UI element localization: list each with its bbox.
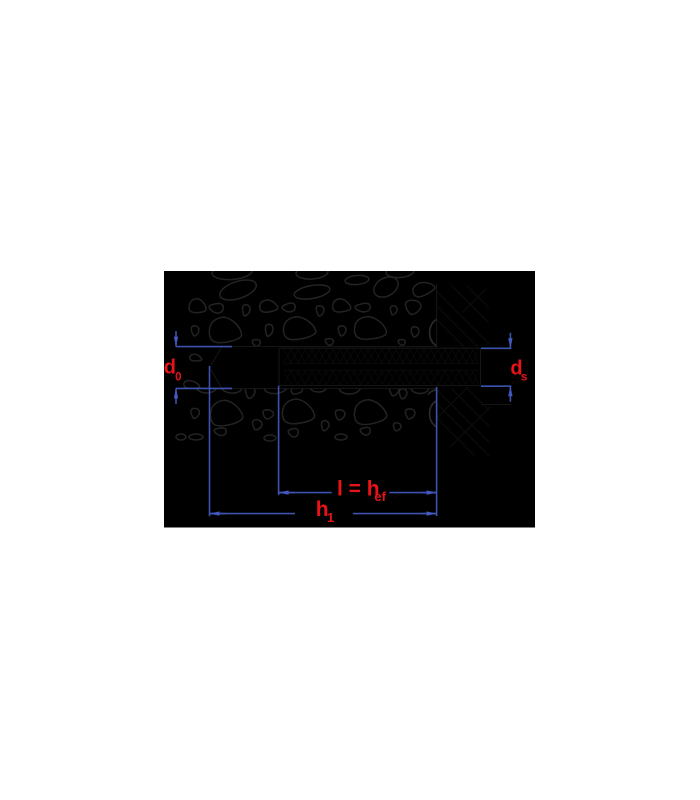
- svg-text:1: 1: [327, 510, 334, 525]
- svg-text:s: s: [521, 370, 528, 384]
- svg-text:l = h: l = h: [337, 477, 380, 500]
- svg-text:0: 0: [175, 372, 181, 384]
- svg-text:ef: ef: [374, 489, 386, 504]
